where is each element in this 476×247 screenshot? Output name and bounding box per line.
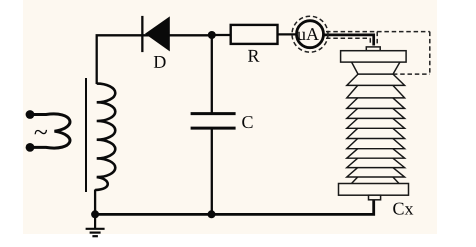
label Cx — [393, 203, 413, 215]
label R — [248, 50, 259, 62]
label D — [154, 56, 166, 68]
wire: top bus from transformer to diode to junction to resistor — [97, 35, 212, 84]
wire: transformer secondary bottom lead — [94, 190, 96, 215]
insulator Cx neck below cap — [352, 62, 400, 74]
meter uA circle — [297, 21, 324, 48]
shield dashed right edge — [429, 32, 431, 75]
resistor R body — [231, 25, 278, 44]
AC source terminal top — [26, 110, 35, 119]
meter label uA — [297, 28, 319, 40]
insulator Cx sheds — [347, 74, 405, 183]
diode D triangle — [145, 16, 170, 51]
wire: capacitor branch upper — [211, 35, 213, 114]
shield dashed circle around meter — [292, 16, 328, 52]
wire: meter to insulator top, corner down — [323, 35, 374, 46]
wire: junction to resistor left lead — [212, 34, 232, 36]
node junction ground (transformer/ground bus) — [91, 210, 99, 218]
diode D cathode bar — [141, 16, 143, 52]
AC tilde symbol — [35, 130, 48, 134]
shield dashed vertical right of down wire — [376, 32, 378, 45]
label C — [242, 116, 252, 128]
wire: capacitor branch lower — [211, 128, 213, 214]
insulator Cx top terminal — [366, 47, 380, 51]
ground — [86, 214, 105, 236]
insulator Cx bottom cap — [339, 184, 409, 196]
capacitor C top plate — [191, 112, 236, 115]
node junction top (diode/R/C) — [208, 31, 216, 39]
insulator Cx bottom terminal — [369, 195, 381, 200]
shield dashed bottom edge — [393, 73, 430, 75]
wire: resistor right lead to meter — [278, 33, 298, 35]
wire: bottom ground bus — [95, 199, 374, 215]
shield dashed line below meter wire — [326, 37, 370, 39]
node junction bottom (C/ground bus) — [208, 210, 216, 218]
capacitor C bottom plate — [191, 127, 236, 130]
insulator Cx top cap — [341, 51, 407, 62]
AC source terminal bottom — [26, 143, 35, 152]
transformer core bar — [85, 78, 87, 192]
shield dashed line above meter wire — [326, 31, 430, 33]
transformer secondary winding — [95, 84, 115, 190]
transformer T primary winding — [30, 114, 70, 148]
shield dashed vertical left of down wire — [369, 38, 371, 44]
